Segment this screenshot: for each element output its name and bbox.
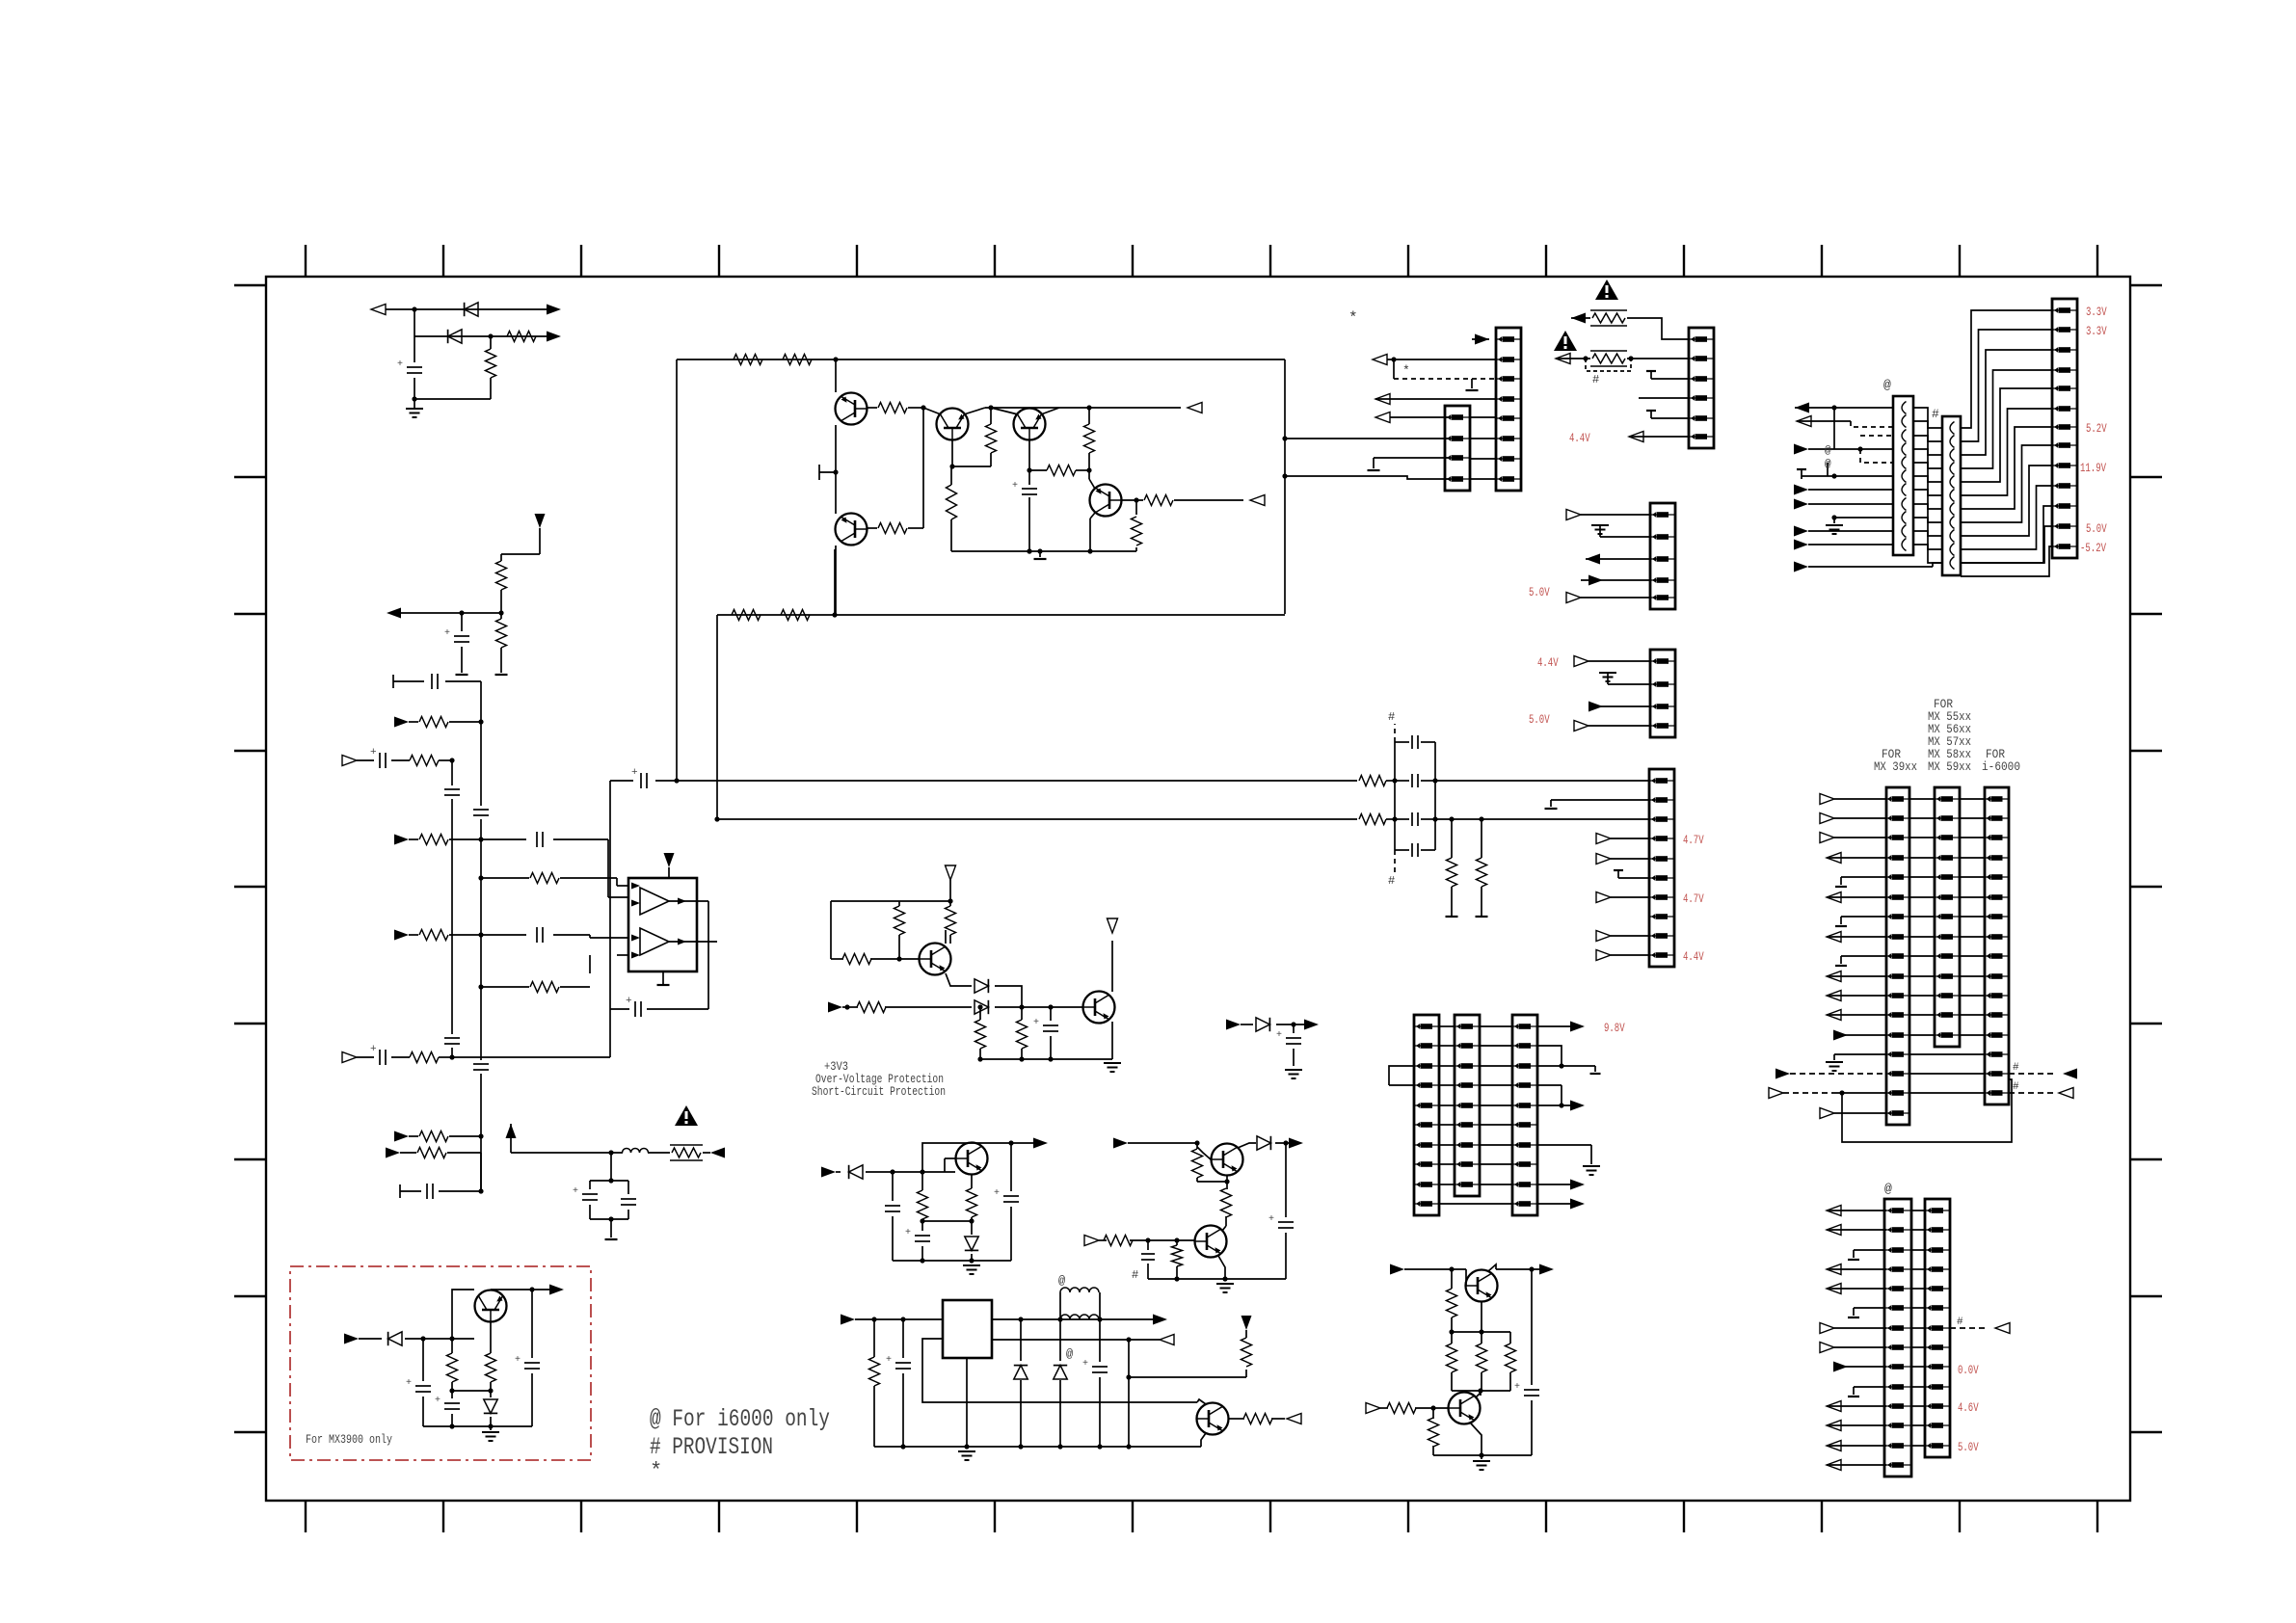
- filled arrow right: [394, 717, 409, 728]
- transistor QB: [1197, 1403, 1229, 1435]
- wire: [922, 1220, 972, 1222]
- wire: [452, 1390, 491, 1392]
- diode D4: [974, 1000, 988, 1014]
- dashed provision bottom: [1394, 850, 1396, 872]
- filled arrow right: [1794, 499, 1808, 510]
- filled arrow right: [547, 305, 561, 315]
- terminal bar: [392, 675, 394, 688]
- svg-text:@: @: [1066, 1347, 1074, 1361]
- wire: [1627, 318, 1689, 339]
- svg-text:+: +: [1514, 1382, 1520, 1393]
- svg-text:+: +: [397, 359, 403, 370]
- inductor L1: [1060, 1315, 1099, 1319]
- open arrow: [1596, 931, 1611, 942]
- ground stub: [819, 471, 836, 473]
- svg-text:+: +: [994, 1188, 1000, 1199]
- node: [488, 333, 493, 338]
- wire: [831, 900, 950, 902]
- resistor R29: [949, 901, 951, 906]
- capacitor C27 polarized: [1285, 1143, 1287, 1217]
- ground stub: [1550, 800, 1552, 807]
- svg-text:9.8V: 9.8V: [1604, 1021, 1625, 1035]
- capacitor C31: [627, 1181, 629, 1194]
- resistor R34: [921, 1172, 923, 1190]
- resistor R50: [451, 1339, 453, 1353]
- filled arrow left: [710, 1148, 725, 1158]
- ground stub: [1373, 458, 1375, 468]
- svg-text:@: @: [1884, 1182, 1892, 1196]
- diode D3: [974, 979, 988, 993]
- op-amp output wire 2: [669, 941, 717, 943]
- filled arrow down: [1241, 1316, 1252, 1330]
- svg-text:5.0V: 5.0V: [2086, 521, 2107, 536]
- transistor Q5: [1090, 485, 1122, 517]
- connector J11: [1942, 416, 1961, 575]
- node: [459, 610, 464, 615]
- vertical wire: [835, 359, 837, 392]
- op-amp input arrows: [631, 883, 640, 890]
- open arrow: [1596, 854, 1611, 865]
- right wire: [1537, 1046, 1562, 1066]
- wire: [908, 407, 923, 409]
- svg-text:@: @: [1058, 1274, 1066, 1288]
- vertical wire: [676, 359, 678, 781]
- svg-text:#: #: [2013, 1062, 2019, 1074]
- wire: [1285, 476, 1451, 479]
- capacitor C8: [536, 927, 538, 943]
- wire: [1088, 470, 1090, 479]
- resistor R31: [857, 1002, 886, 1013]
- resistor R21: [990, 408, 992, 424]
- resistor R23: [1029, 469, 1047, 471]
- wire to connector: [1435, 818, 1649, 820]
- filled arrow right: [1794, 540, 1808, 550]
- transistor Q6 collector: [945, 930, 947, 944]
- svg-text:#: #: [1388, 710, 1396, 724]
- filled arrow right: [1113, 1138, 1128, 1149]
- J10-J11 row wires: [1913, 408, 1942, 428]
- resistor R11: [391, 1056, 410, 1058]
- svg-text:+: +: [1276, 1030, 1282, 1041]
- transistor Q3: [1014, 409, 1046, 440]
- bottom row: [1820, 1108, 1834, 1119]
- resistor R28: [898, 901, 900, 906]
- ground terminal: [1039, 551, 1041, 557]
- resistor R39: [1196, 1143, 1198, 1149]
- bottom bus: [893, 1260, 1011, 1262]
- right wire arrow: [1537, 1104, 1571, 1106]
- vertical wire: [835, 545, 837, 615]
- wire: [1639, 397, 1689, 399]
- wire: [1276, 1024, 1307, 1025]
- warning triangle: [1554, 331, 1577, 351]
- wire: [539, 528, 541, 554]
- resistor R1: [507, 332, 536, 342]
- svg-text:FOR: FOR: [1882, 748, 1901, 761]
- ground chassis: [1834, 517, 1893, 519]
- wire: [951, 440, 953, 466]
- emitter leg: [1471, 1423, 1482, 1455]
- resistor R35: [971, 1175, 973, 1188]
- top wire: [491, 1289, 552, 1290]
- op-amp U1 box: [628, 878, 697, 971]
- bottom bus: [423, 1425, 532, 1427]
- wire out 2: [992, 1339, 1129, 1341]
- wire: [376, 308, 557, 310]
- open arrow left: [1373, 355, 1387, 365]
- wire: [1452, 1390, 1510, 1392]
- wire: [445, 680, 481, 682]
- ground chassis: [1481, 1455, 1482, 1459]
- diode D2: [448, 330, 462, 343]
- svg-text:+: +: [1268, 1214, 1274, 1225]
- resistor R20: [868, 527, 877, 529]
- wire: [1452, 1331, 1510, 1333]
- bottom wire: [980, 1058, 1112, 1060]
- svg-text:11.9V: 11.9V: [2080, 461, 2106, 475]
- bank row wires: [1909, 798, 1935, 800]
- wire: [995, 1006, 1082, 1008]
- capacitor C34 polarized: [451, 1391, 453, 1398]
- power arrow down: [664, 853, 675, 867]
- open arrow left: [1797, 416, 1811, 427]
- svg-text:5.2V: 5.2V: [2086, 421, 2107, 436]
- svg-text:+: +: [1033, 1018, 1039, 1028]
- regulator ground: [966, 1358, 968, 1447]
- feedback cap wire: [647, 1008, 708, 1010]
- svg-text:#: #: [1388, 874, 1396, 888]
- collector leg: [1197, 1399, 1206, 1404]
- op-amp ground: [662, 971, 664, 985]
- wire: [1090, 513, 1095, 519]
- transistor QC1: [1466, 1270, 1498, 1302]
- filled arrow right: [1589, 702, 1603, 712]
- wire: [1627, 358, 1689, 359]
- frame tick marks top/bottom: [305, 245, 307, 277]
- wire: [617, 885, 628, 887]
- diode D7: [1020, 1319, 1022, 1361]
- wires J1-J2: [1470, 416, 1496, 418]
- ground terminal: [1471, 379, 1473, 388]
- bank left wires: [1820, 794, 1834, 805]
- wire: [995, 986, 1022, 1007]
- resistor R40: [1226, 1182, 1228, 1189]
- ground terminal: [495, 674, 508, 676]
- transistor Q6: [920, 944, 951, 975]
- wire arrow: [1129, 1339, 1160, 1341]
- capacitor C3: [431, 674, 433, 689]
- resistor R46: [1509, 1332, 1511, 1344]
- connector J3 6pin: [1689, 328, 1714, 448]
- filled arrow right: [386, 1148, 400, 1158]
- capacitor C6: [473, 809, 489, 811]
- resistor R43: [1451, 1269, 1453, 1289]
- connector J6 10pin: [1649, 769, 1674, 967]
- bottom bus: [1148, 1278, 1286, 1280]
- ground chassis: [490, 1426, 492, 1430]
- bank bottom loop: [1842, 1079, 2012, 1142]
- vertical trunk: [1284, 359, 1286, 614]
- op-amp U1B triangle: [640, 928, 669, 955]
- fusible resistor F2: [1592, 354, 1625, 363]
- node: [832, 612, 837, 617]
- inductor L2 bypass: [1059, 1292, 1061, 1319]
- wire: [449, 721, 481, 723]
- wire out: [992, 1318, 1158, 1320]
- filled arrow right: [1153, 1315, 1167, 1325]
- connector J2 8pin: [1496, 328, 1521, 491]
- resistor R8: [481, 877, 529, 879]
- capacitor C21 polarized: [1293, 1024, 1295, 1033]
- resistor R19: [868, 407, 877, 409]
- connector J8: [1455, 1015, 1480, 1196]
- filled arrow right: [1033, 1138, 1048, 1149]
- svg-text:+: +: [370, 1044, 377, 1055]
- vertical wire: [716, 615, 718, 819]
- node: [833, 357, 838, 361]
- capacitor C28: [1147, 1240, 1149, 1250]
- base wire: [473, 1338, 475, 1340]
- ground chassis right: [1537, 1144, 1591, 1146]
- wire: [449, 838, 526, 840]
- transistor Q1: [836, 393, 868, 425]
- capacitor C5: [444, 788, 460, 790]
- svg-text:+: +: [1012, 481, 1018, 492]
- emitter wire: [1226, 1176, 1228, 1182]
- capacitor C2 polarized: [461, 613, 463, 631]
- open arrow left: [1629, 432, 1643, 442]
- transistor QC2: [1449, 1393, 1481, 1424]
- svg-text:#: #: [1932, 407, 1939, 421]
- resistor R17: [1359, 776, 1386, 786]
- wire: [1385, 359, 1496, 360]
- wire: [405, 1338, 474, 1340]
- resistor R28b: [947, 485, 957, 519]
- svg-text:FOR: FOR: [1986, 748, 2005, 761]
- ground terminal: [456, 674, 468, 676]
- svg-text:5.0V: 5.0V: [1958, 1440, 1979, 1454]
- fusible resistor F3: [672, 1148, 701, 1157]
- svg-text:@: @: [1825, 445, 1831, 457]
- svg-text:4.4V: 4.4V: [1683, 949, 1704, 964]
- svg-text:MX 56xx: MX 56xx: [1928, 723, 1971, 736]
- capacitor C30 polarized: [589, 1181, 591, 1189]
- filled arrow right: [1226, 1020, 1241, 1030]
- svg-text:For MX3900 only: For MX3900 only: [306, 1432, 392, 1447]
- wire: [447, 1152, 481, 1154]
- open arrow left: [371, 305, 386, 315]
- filled arrow right: [1794, 562, 1808, 572]
- top bus wire: [677, 359, 1285, 360]
- filled arrow right: [1794, 485, 1808, 495]
- open arrow left: [1160, 1335, 1174, 1345]
- connector J10: [1893, 396, 1913, 555]
- dashed row provision: [1775, 1069, 1790, 1079]
- diode D8: [1059, 1319, 1061, 1361]
- node: [1583, 356, 1588, 360]
- resistor R16: [781, 610, 810, 621]
- wire: [553, 934, 590, 936]
- bottom bus: [874, 1446, 1201, 1448]
- filled arrow left: [1795, 403, 1809, 413]
- resistor R36: [873, 1319, 875, 1357]
- filled arrow right: [394, 930, 409, 941]
- emitter leg: [1218, 1256, 1225, 1279]
- wire: [1128, 1377, 1130, 1447]
- left wires: [1389, 1084, 1414, 1086]
- wire: [553, 838, 608, 840]
- open arrow left: [1287, 1414, 1301, 1424]
- dashed provision row: [1950, 1327, 1988, 1329]
- wire: [1028, 440, 1030, 470]
- wire: [991, 408, 1018, 414]
- capacitor C14 polarized: [640, 773, 642, 788]
- collector leg: [1488, 1264, 1496, 1271]
- wire: [923, 408, 941, 414]
- svg-text:4.7V: 4.7V: [1683, 891, 1704, 906]
- capacitor C18: [1395, 849, 1409, 851]
- capacitor C25 polarized: [902, 1319, 904, 1358]
- resistor R44: [1451, 1332, 1453, 1344]
- transistor QP2: [475, 1290, 507, 1322]
- open arrow left: [1250, 495, 1265, 506]
- wire: [1496, 1268, 1542, 1270]
- warning triangle: [675, 1105, 698, 1126]
- filled arrow left: [387, 608, 401, 619]
- filled arrow right: [1589, 575, 1603, 586]
- resistor R30: [842, 954, 871, 965]
- svg-text:+: +: [406, 1378, 412, 1389]
- svg-text:Short-Circuit Protection: Short-Circuit Protection: [812, 1084, 946, 1099]
- svg-text:+: +: [370, 747, 377, 758]
- resistor R51: [490, 1322, 492, 1353]
- ground chassis: [1216, 1283, 1234, 1285]
- resistor R12: [419, 1131, 448, 1142]
- pair row wires: [1911, 1210, 1925, 1211]
- dashed row provision 2: [1769, 1088, 1783, 1099]
- svg-text:0.0V: 0.0V: [1958, 1363, 1979, 1377]
- diode D9: [1238, 1143, 1256, 1148]
- ground small: [1650, 411, 1652, 418]
- pair left wires: [1827, 1206, 1841, 1216]
- svg-text:4.6V: 4.6V: [1958, 1400, 1979, 1415]
- connector J16 14pin: [1884, 1199, 1911, 1477]
- ground chassis: [1607, 673, 1609, 684]
- svg-text:*: *: [650, 1459, 663, 1483]
- connector J9: [1512, 1015, 1537, 1215]
- capacitor C13 polarized: [634, 1001, 636, 1017]
- svg-text:+: +: [631, 767, 638, 779]
- svg-text:MX 59xx: MX 59xx: [1928, 760, 1971, 774]
- filled arrow up: [506, 1124, 517, 1138]
- connector J7: [1414, 1015, 1439, 1215]
- svg-text:4.4V: 4.4V: [1569, 431, 1590, 445]
- filled arrow right: [1539, 1264, 1554, 1275]
- svg-text:+: +: [1082, 1359, 1088, 1370]
- resistor R4: [500, 613, 502, 619]
- filled arrow right: [344, 1334, 359, 1344]
- open arrow: [1566, 593, 1581, 603]
- ground small: [1617, 870, 1619, 878]
- emitter wire: [1111, 1022, 1113, 1059]
- open arrow right: [1084, 1236, 1099, 1246]
- feedback wire: [1129, 1376, 1246, 1378]
- filled arrow right: [547, 332, 561, 342]
- connector J13 17pin: [1886, 787, 1909, 1125]
- wire: [449, 1135, 481, 1137]
- op-amp output wire: [669, 900, 708, 902]
- ground small: [1650, 371, 1652, 379]
- capacitor C19 polarized: [1028, 470, 1030, 485]
- resistor R22: [1088, 408, 1090, 424]
- feedback vertical: [1128, 1340, 1130, 1377]
- wire: [1285, 438, 1451, 439]
- open arrow: [1596, 834, 1611, 844]
- resistor R41: [1104, 1236, 1133, 1246]
- collector leg: [1480, 1391, 1482, 1396]
- resistor R2: [490, 336, 492, 349]
- capacitor C29 polarized: [1531, 1269, 1533, 1385]
- svg-text:@: @: [1825, 459, 1831, 470]
- resistor R13: [734, 355, 762, 365]
- filled arrow right: [841, 1315, 855, 1325]
- wire B long: [717, 818, 1357, 820]
- svg-text:@ For i6000 only: @ For i6000 only: [650, 1405, 830, 1433]
- svg-text:*: *: [1348, 309, 1358, 327]
- transistor QA1: [1212, 1144, 1243, 1176]
- filled arrow left: [1571, 313, 1586, 324]
- svg-text:#: #: [1132, 1268, 1139, 1282]
- diode D1: [465, 303, 478, 316]
- capacitor C16: [1395, 818, 1409, 820]
- svg-text:+: +: [626, 996, 632, 1007]
- sense wire: [922, 1339, 1197, 1402]
- wire: [414, 335, 557, 337]
- ground terminal: [1446, 916, 1458, 918]
- capacitor C17: [1395, 741, 1409, 743]
- J11-J12 staircase wires: [1961, 310, 2052, 428]
- svg-text:MX 55xx: MX 55xx: [1928, 710, 1971, 724]
- filled arrow right: [828, 1002, 842, 1013]
- collector wire: [452, 1290, 474, 1339]
- connector J14 13pin: [1935, 787, 1960, 1047]
- red dash-dot box For MX3900: [290, 1266, 591, 1460]
- dashed provision: [1393, 359, 1395, 379]
- capacitor C4 polarized: [379, 753, 381, 768]
- wire: [1130, 1239, 1194, 1241]
- svg-text:3.3V: 3.3V: [2086, 305, 2107, 319]
- svg-text:*: *: [1402, 363, 1410, 378]
- right wire arrow: [1537, 1184, 1571, 1185]
- filled arrow down: [535, 514, 546, 528]
- connector J4 5pin: [1650, 503, 1675, 609]
- wire: [589, 935, 591, 938]
- wire: [885, 1006, 972, 1008]
- mid bus wire: [717, 614, 1285, 616]
- emitter wire: [946, 973, 972, 986]
- warning triangle: [1595, 279, 1618, 300]
- wire: [393, 680, 424, 682]
- open arrow: [1596, 950, 1611, 961]
- wire: [842, 1006, 858, 1008]
- ground chassis: [1285, 1069, 1302, 1071]
- resistor R32: [979, 1007, 981, 1020]
- wire: [1271, 1418, 1285, 1420]
- transistor Q4: [836, 514, 868, 545]
- bottom wire: [1433, 1454, 1532, 1456]
- bank row wires: [1439, 1025, 1455, 1027]
- emitter leg: [1201, 1433, 1206, 1447]
